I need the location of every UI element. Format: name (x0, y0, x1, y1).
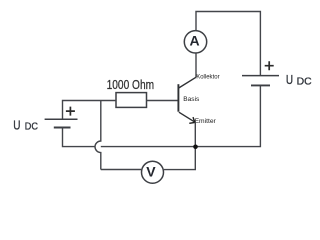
svg-text:U: U (286, 72, 293, 87)
transistor Q1 emitter arrow (189, 117, 195, 123)
svg-text:Basis: Basis (183, 96, 200, 103)
ammeter A1 circle (184, 31, 206, 53)
svg-text:Emitter: Emitter (195, 118, 217, 125)
wire: V-loop left (101, 169, 141, 171)
battery B1 (left) short plate (54, 127, 71, 129)
transistor Q1 emitter diagonal (179, 112, 195, 122)
junction node dot (193, 145, 198, 150)
svg-text:1000 Ohm: 1000 Ohm (107, 78, 155, 92)
wire: emitter vertical down to junction (194, 122, 196, 147)
wire: resistor right to base (147, 100, 178, 102)
svg-text:DC: DC (297, 76, 312, 87)
svg-text:Kollektor: Kollektor (196, 73, 220, 80)
svg-text:V: V (146, 164, 156, 180)
svg-text:A: A (189, 32, 199, 48)
wire: left battery - down and right to hop (63, 128, 96, 147)
wire: V-loop right (164, 147, 196, 170)
wire: ammeter bottom to collector bend (195, 53, 197, 77)
wire: top wire from ammeter to right battery (196, 12, 260, 76)
svg-text:DC: DC (25, 122, 39, 133)
battery B2 (right) long plate (242, 75, 279, 77)
transistor Q1 base bar (177, 84, 179, 112)
transistor Q1 collector diagonal (179, 77, 196, 88)
battery B1 (left) long plate (45, 118, 78, 120)
wire: vertical branch from top wire with hop over bottom wire (95, 101, 101, 170)
voltmeter V1 circle (142, 161, 164, 183)
svg-text:U: U (13, 117, 20, 132)
battery B2 (right) short plate (251, 84, 270, 86)
resistor R1 box (116, 93, 147, 108)
wire: bottom wire from hop to right battery (101, 86, 261, 147)
wire: left battery + up and right to resistor (63, 101, 117, 120)
battery B2 plus sign (265, 61, 274, 70)
battery B1 plus sign (66, 107, 75, 116)
